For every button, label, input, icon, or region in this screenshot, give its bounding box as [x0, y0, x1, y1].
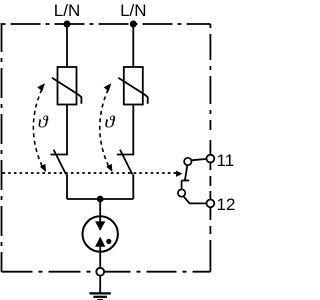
node L/N 1 wire: [66, 24, 68, 67]
spark gap lower electrode triangle: [95, 237, 105, 247]
FM dash between 11 and 12: [209, 176, 211, 186]
FM terminal line above 12: [209, 191, 211, 200]
FM terminal 11 circle: [207, 155, 215, 163]
thermal actuation dashed arc 2: [100, 90, 109, 168]
FM line to bottom corner: [209, 240, 211, 272]
svg-text:L/N: L/N: [54, 1, 80, 20]
FM dash below 12: [209, 226, 211, 234]
junction node: [97, 196, 104, 203]
arc 2 top arrowhead: [104, 83, 112, 91]
svg-text:12: 12: [217, 195, 236, 214]
FM terminal line above 11: [209, 140, 211, 155]
terminal node L/N 1: [64, 21, 71, 28]
FM contact tick: [181, 180, 189, 182]
varistor MOV1 body: [58, 67, 77, 105]
spark gap gas-filled dot: [106, 239, 111, 244]
enclosure border left: [1, 24, 3, 272]
FM wire 11 horizontal: [191, 159, 206, 160]
wire switch1 down: [66, 174, 68, 199]
node L/N 2 wire: [132, 24, 134, 67]
varistor MOV2 stroke: [118, 78, 147, 104]
spark gap upper electrode triangle: [95, 221, 105, 230]
svg-text:11: 11: [217, 151, 235, 170]
thermal disconnector switch 1 blade: [54, 150, 66, 175]
arc 1 top arrowhead: [37, 83, 45, 91]
FM contact circle B: [178, 189, 185, 196]
FM contact circle A: [184, 158, 191, 165]
FM terminal 12 circle: [207, 200, 215, 208]
wire joining branches: [67, 198, 133, 200]
spark gap upper wire into circle: [99, 216, 101, 230]
enclosure border bottom: [2, 271, 211, 273]
ground stem: [99, 276, 101, 293]
wire node to spark gap: [99, 199, 101, 222]
arc 1 bottom arrowhead: [40, 164, 46, 172]
earth terminal open circle: [96, 268, 104, 276]
FM terminal line below 12: [209, 207, 211, 220]
wire MOV1 to switch: [66, 105, 68, 155]
wire MOV2 to switch: [132, 105, 134, 155]
thermal disconnector switch 2 contact: [117, 154, 134, 156]
wire switch2 down: [132, 174, 134, 199]
varistor MOV1 stroke: [52, 78, 81, 104]
FM switch arm: [185, 165, 187, 180]
spark gap circle: [83, 216, 118, 251]
arc 2 bottom arrowhead: [106, 164, 112, 172]
terminal node L/N 2: [130, 21, 137, 28]
FM wire 12 link: [184, 196, 207, 203]
ground bar 3: [97, 299, 103, 300]
thermal actuation dashed arc 1: [33, 90, 42, 168]
varistor MOV2 body: [124, 67, 143, 105]
FM contact stub: [181, 181, 183, 190]
dotted line arrowhead to FM: [176, 171, 182, 177]
ground bar 1: [89, 292, 110, 294]
ground bar 2: [93, 296, 107, 298]
enclosure border right: [209, 24, 211, 130]
thermal disconnector switch 1 contact: [50, 154, 68, 156]
enclosure border top: [1, 23, 211, 25]
FM terminal line below 11: [209, 163, 211, 171]
status indication dotted line: [3, 172, 177, 174]
spark gap lower wire: [99, 247, 101, 268]
svg-text:L/N: L/N: [120, 1, 146, 20]
thermal disconnector switch 2 blade: [120, 150, 132, 175]
